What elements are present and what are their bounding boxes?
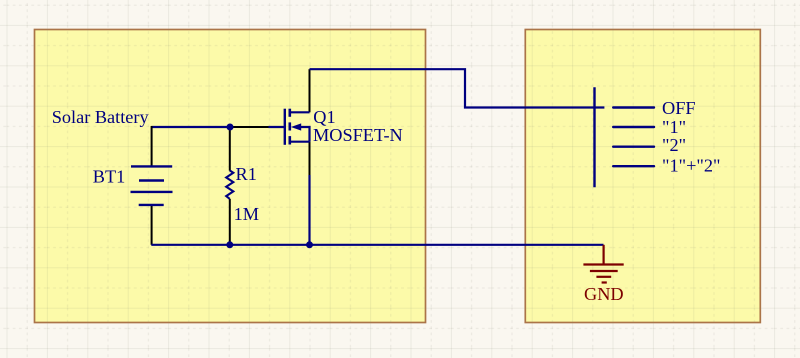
drain lead xyxy=(291,111,310,113)
svg-text:"1"+"2": "1"+"2" xyxy=(662,156,720,176)
junction dot at source bottom xyxy=(306,241,313,248)
switch throw OFF xyxy=(613,106,654,108)
gate pin xyxy=(269,126,285,128)
svg-text:1M: 1M xyxy=(234,204,259,224)
switch throw 1+2 xyxy=(613,165,654,167)
wire: source vertical black part xyxy=(309,142,311,175)
sheet symbol: right (switch / GND) xyxy=(525,30,760,323)
battery BT1 xyxy=(131,166,173,205)
wire: battery top pin (black vertical) xyxy=(151,126,153,166)
svg-text:OFF: OFF xyxy=(662,98,696,118)
ground xyxy=(583,245,623,283)
channel segment middle xyxy=(288,122,291,130)
wire: junction to gate pin (black segment) xyxy=(230,126,269,128)
body diode arrow of Q1 xyxy=(291,123,301,130)
wire: drain vertical (black) xyxy=(309,69,311,112)
transistor Q1 MOSFET-N xyxy=(269,109,310,145)
wire: bottom rail xyxy=(151,244,603,246)
switch common bar xyxy=(593,87,595,187)
junction dot at R1 bottom xyxy=(226,241,233,248)
channel segment bottom xyxy=(288,136,291,144)
wire: source vertical navy part xyxy=(308,175,310,245)
wire: R1 top pin (black vertical) xyxy=(229,129,231,171)
gate bar xyxy=(284,109,286,145)
wire: battery bottom pin (black vertical) xyxy=(151,205,153,245)
svg-text:Solar Battery: Solar Battery xyxy=(52,107,150,127)
switch throw 2 xyxy=(613,145,654,147)
sheet symbol: left (Solar Battery circuit) xyxy=(35,30,426,323)
wire: R1 bottom pin (black vertical) xyxy=(229,199,231,243)
svg-text:MOSFET-N: MOSFET-N xyxy=(313,125,403,145)
wire: top net from label corner to junction xyxy=(151,126,230,128)
body connection with arrow line xyxy=(300,127,310,142)
wire: drain to switch net xyxy=(310,69,605,107)
svg-text:BT1: BT1 xyxy=(93,167,126,187)
switch throw 1 xyxy=(613,126,654,128)
svg-text:GND: GND xyxy=(584,284,624,304)
junction dot at gate branch xyxy=(227,124,234,131)
svg-text:R1: R1 xyxy=(236,164,257,184)
svg-text:"2": "2" xyxy=(662,135,686,155)
source lead xyxy=(291,141,310,143)
resistor R1 zigzag xyxy=(226,171,233,199)
channel segment top xyxy=(288,109,291,117)
